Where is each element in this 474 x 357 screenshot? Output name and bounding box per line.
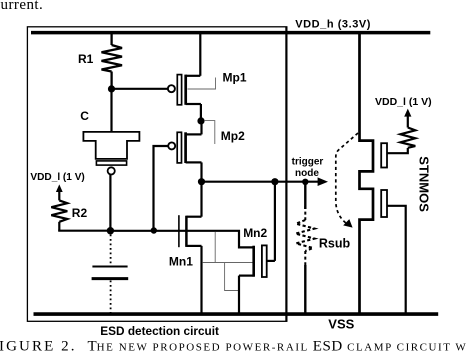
finger1 gate lead (387, 148, 408, 153)
svg-text:THE NEW PROPOSED POWER-RAIL ES: THE NEW PROPOSED POWER-RAIL ESD CLAMP CI… (88, 339, 468, 355)
nmos Mn1 (179, 182, 202, 313)
STNMOS gate finger 2 (381, 190, 387, 217)
resistor R2 (51, 200, 67, 230)
svg-text:ESD detection circuit: ESD detection circuit (100, 324, 219, 338)
wire R2 to node B (58, 230, 110, 232)
parasitic capacitor plates (92, 266, 127, 268)
wire node A down to C (110, 89, 112, 132)
svg-text:STNMOS: STNMOS (416, 156, 431, 212)
trigger wire (202, 181, 319, 183)
svg-text:C: C (80, 109, 89, 123)
STNMOS source/bulk electrode (360, 32, 374, 313)
box right edge (darker) (285, 27, 287, 322)
VDD_h rail (31, 31, 430, 35)
resistor (right, to VDD_l) (400, 128, 415, 148)
wire Mp2 gate down-line (154, 146, 169, 231)
ESD detection circuit box (27, 27, 286, 322)
Rsub dashed lead bottom (304, 251, 306, 266)
Rsub dashed lead (304, 206, 306, 220)
Mn1 leader lines (203, 232, 254, 291)
resistor R1 (102, 34, 123, 89)
pmos Mp1 (168, 34, 201, 121)
wire node A to Mp1 gate (112, 88, 168, 90)
node trigger/Rsub (302, 179, 308, 185)
node Mp1/Mp2 (197, 117, 204, 124)
resistor Rsub (dashed zigzag) (296, 220, 315, 251)
node trigger/Mn2 gate (271, 178, 278, 185)
svg-text:Rsub: Rsub (319, 237, 351, 251)
svg-text:VDD_l (1 V): VDD_l (1 V) (375, 96, 432, 108)
svg-text:R1: R1 (78, 52, 94, 66)
svg-text:Mn1: Mn1 (169, 255, 193, 269)
svg-text:Mp1: Mp1 (223, 70, 247, 84)
svg-text:VSS: VSS (328, 316, 354, 331)
node trigger/Mn1 (198, 178, 205, 185)
Mp2 leader line (205, 121, 215, 144)
svg-text:IGURE 2.: IGURE 2. (0, 339, 77, 355)
svg-text:trigger: trigger (292, 157, 324, 168)
VSS rail (34, 312, 439, 316)
svg-text:node: node (295, 168, 319, 179)
svg-text:R2: R2 (72, 206, 88, 220)
node on gate wire (Mp2 gate tap) (151, 227, 157, 233)
trigger arrowhead (318, 177, 328, 186)
svg-text:VDD_l (1 V): VDD_l (1 V) (30, 172, 84, 183)
node A (R1 / C / Mp1 gate) (108, 85, 115, 92)
Rsub column bottom (solid) (304, 265, 306, 313)
parasitic capacitor (dashed) top lead (110, 235, 112, 266)
wire C bulk down to node B (109, 175, 111, 231)
Rsub column top (solid) (304, 182, 306, 209)
VDD_l arrow (56, 184, 63, 200)
VDD_l right arrow (404, 109, 411, 117)
nmos Mn2 (239, 182, 275, 313)
MOS capacitor C (83, 132, 139, 175)
pmos Mp2 (168, 121, 201, 182)
STNMOS gate finger 1 (381, 143, 387, 167)
svg-text:Mn2: Mn2 (243, 226, 267, 240)
dashed curve arrowhead (343, 219, 352, 228)
Mp1 leader line (188, 78, 216, 90)
svg-text:VDD_h (3.3V): VDD_h (3.3V) (295, 19, 371, 31)
parasitic capacitor bottom lead (110, 281, 112, 313)
wire node B to Mn2 drain (crosses Mn1) (110, 231, 252, 248)
finger2 gate lead to VSS (387, 206, 406, 313)
svg-text:Mp2: Mp2 (221, 129, 245, 143)
svg-text:urrent.: urrent. (1, 0, 44, 13)
node B (R2 / C / Mn1 gate wire) (107, 227, 114, 234)
dashed trigger-current curve (336, 133, 358, 224)
